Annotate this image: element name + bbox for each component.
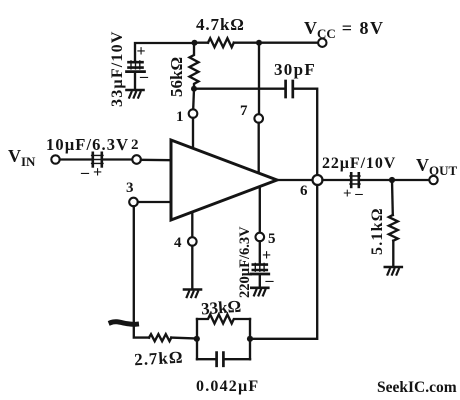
capacitor 30pF [286, 81, 293, 97]
svg-text:10µF/6.3V: 10µF/6.3V [46, 135, 129, 154]
feedback network box top edge with resistor 33k [197, 315, 250, 324]
svg-text:+: + [137, 43, 146, 60]
ground under 33uF [127, 90, 144, 98]
svg-text:VIN: VIN [8, 146, 36, 169]
node B junction dot [256, 40, 262, 46]
wire pin 4 to ground [191, 246, 193, 289]
svg-text:6: 6 [300, 183, 308, 199]
wire 220uF to ground [259, 275, 261, 287]
wire node E to Vout terminal [392, 179, 429, 181]
wire node B down to pin 7 [258, 43, 260, 115]
svg-text:2: 2 [131, 137, 139, 153]
terminal Vin open circle [51, 155, 59, 163]
svg-text:–: – [139, 68, 149, 85]
wire 22uF to node E [360, 179, 392, 181]
wire op-amp to pin 5 [259, 187, 261, 233]
svg-text:33µF/10V: 33µF/10V [109, 30, 126, 107]
svg-text:SeekIC.com: SeekIC.com [377, 379, 457, 396]
pin 5 open circle [255, 233, 264, 242]
capacitor 22uF/10V electrolytic [350, 173, 360, 187]
svg-text:4.7kΩ: 4.7kΩ [196, 15, 245, 34]
wire node E down to 5.1k [391, 180, 394, 215]
wire pin 3 down and to 2.7k [134, 206, 149, 337]
node 6 open circle [313, 175, 323, 185]
capacitor 0.042uF [217, 353, 224, 366]
resistor 56k vertical [190, 43, 199, 89]
wire Vin to 10uF [60, 158, 92, 160]
wire node 6 to 22uF [323, 179, 350, 181]
svg-text:2.7kΩ: 2.7kΩ [134, 348, 184, 370]
svg-text:30pF: 30pF [274, 60, 316, 79]
wire node 6 down right rail to feedback [253, 185, 317, 339]
resistor 2.7k [149, 334, 171, 341]
feedback box bottom edge with capacitor 0.042uF [197, 358, 250, 360]
node F junction dot [247, 336, 253, 342]
svg-text:+ –: + – [343, 186, 363, 202]
terminal Vcc open circle [318, 39, 326, 47]
svg-text:5.1kΩ: 5.1kΩ [369, 207, 386, 255]
wire pin 2 to op-amp [141, 159, 171, 162]
svg-text:7: 7 [240, 103, 248, 119]
pin 4 open circle [188, 237, 197, 246]
node A junction dot [192, 40, 198, 46]
wire pin 1 to op-amp [192, 118, 194, 149]
svg-text:– +: – + [80, 164, 102, 181]
svg-text:5: 5 [268, 231, 276, 247]
wire op-amp to pin 4 [191, 212, 193, 237]
wire top-left from 33uF corner to node A [135, 43, 195, 61]
svg-text:56kΩ: 56kΩ [167, 57, 186, 97]
op-amp U1 [171, 140, 277, 220]
capacitor 10uF/6.3V electrolytic [92, 153, 103, 167]
svg-text:4: 4 [174, 235, 182, 251]
ground under pin 4 [184, 290, 201, 298]
wire node B to Vcc terminal [259, 42, 318, 44]
capacitor 33uF/10V electrolytic [127, 61, 145, 72]
pin 7 open circle [254, 114, 263, 123]
wire resistor 4.7k to node B [234, 42, 259, 44]
wire 33uF to ground [134, 73, 136, 90]
svg-text:+: + [262, 247, 271, 264]
pin 3 open circle [129, 198, 138, 207]
svg-text:VOUT: VOUT [416, 155, 458, 178]
ground under 220uF [251, 288, 268, 296]
wire node C to 30pF [194, 88, 284, 90]
svg-text:22µF/10V: 22µF/10V [322, 155, 396, 172]
svg-text:3: 3 [126, 180, 134, 196]
svg-text:1: 1 [176, 109, 184, 125]
wire 10uF to pin 2 [103, 158, 132, 160]
wire pin 7 to op-amp [258, 123, 260, 173]
wire node C down to pin 1 [192, 89, 195, 110]
terminal Vout open circle [429, 176, 437, 184]
node E junction dot [389, 177, 395, 183]
wire 30pF to right vertical rail [294, 89, 317, 176]
thick stub crossing wire [111, 322, 137, 325]
node D junction dot [194, 336, 200, 342]
feedback network box right edge [249, 319, 251, 359]
wire 5.1k to ground [392, 241, 394, 267]
pin 2 open circle [132, 155, 141, 164]
node C junction dot [191, 86, 197, 92]
capacitor 220uF/6.3V electrolytic [251, 263, 269, 274]
wire pin 5 to 220uF [259, 241, 261, 263]
wire pin 3 to op-amp [138, 201, 171, 203]
svg-text:–: – [265, 272, 275, 289]
svg-text:VCC = 8V: VCC = 8V [304, 18, 385, 41]
svg-text:33kΩ: 33kΩ [200, 297, 241, 319]
ground under 5.1k [385, 267, 402, 275]
wire op-amp output to node 6 [277, 179, 313, 181]
resistor 5.1k vertical [389, 215, 398, 241]
wire node A to resistor 4.7k [195, 42, 209, 44]
pin 1 open circle [189, 109, 198, 118]
feedback network box left edge [196, 319, 198, 359]
wire 2.7k to feedback node D [171, 336, 197, 339]
svg-text:0.042µF: 0.042µF [196, 378, 259, 395]
resistor 4.7k [208, 38, 234, 47]
